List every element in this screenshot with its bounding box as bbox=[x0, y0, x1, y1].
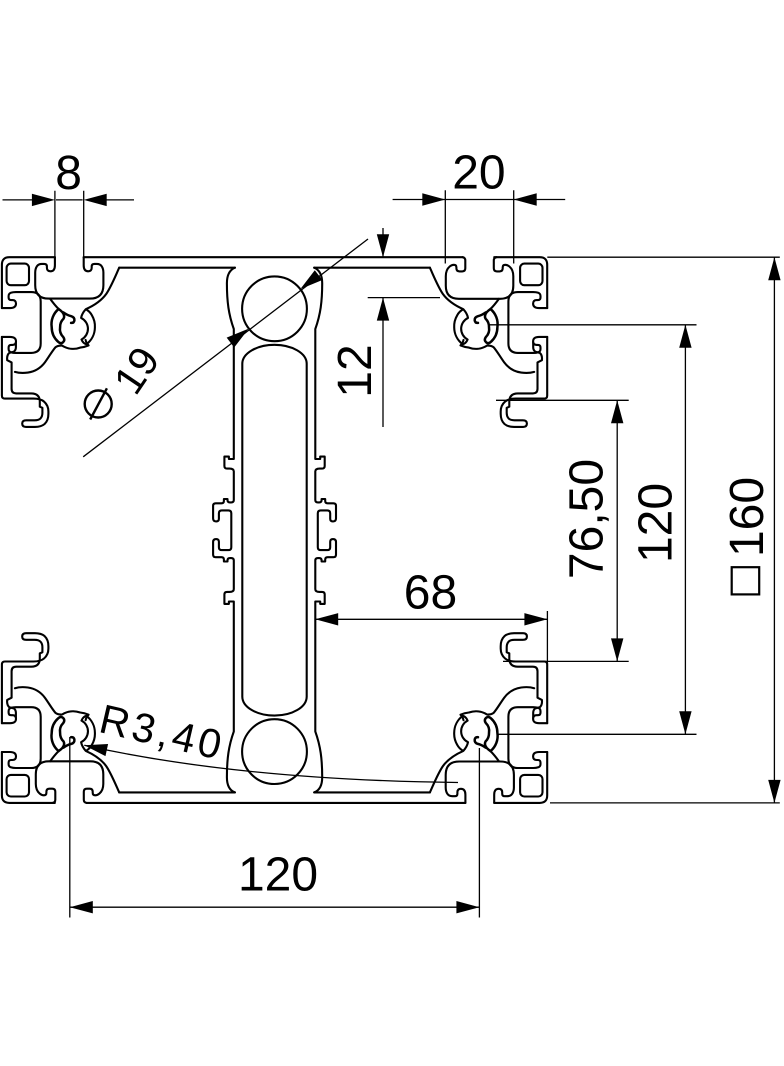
svg-text:19: 19 bbox=[105, 339, 169, 403]
svg-text:120: 120 bbox=[238, 849, 318, 902]
svg-text:20: 20 bbox=[452, 147, 505, 200]
svg-text:R3,40: R3,40 bbox=[95, 696, 229, 769]
svg-text:12: 12 bbox=[329, 344, 382, 397]
svg-text:160: 160 bbox=[721, 477, 774, 557]
svg-text:120: 120 bbox=[630, 483, 683, 563]
svg-text:8: 8 bbox=[55, 147, 82, 200]
svg-text:76,50: 76,50 bbox=[561, 459, 614, 579]
svg-text:68: 68 bbox=[404, 566, 457, 619]
